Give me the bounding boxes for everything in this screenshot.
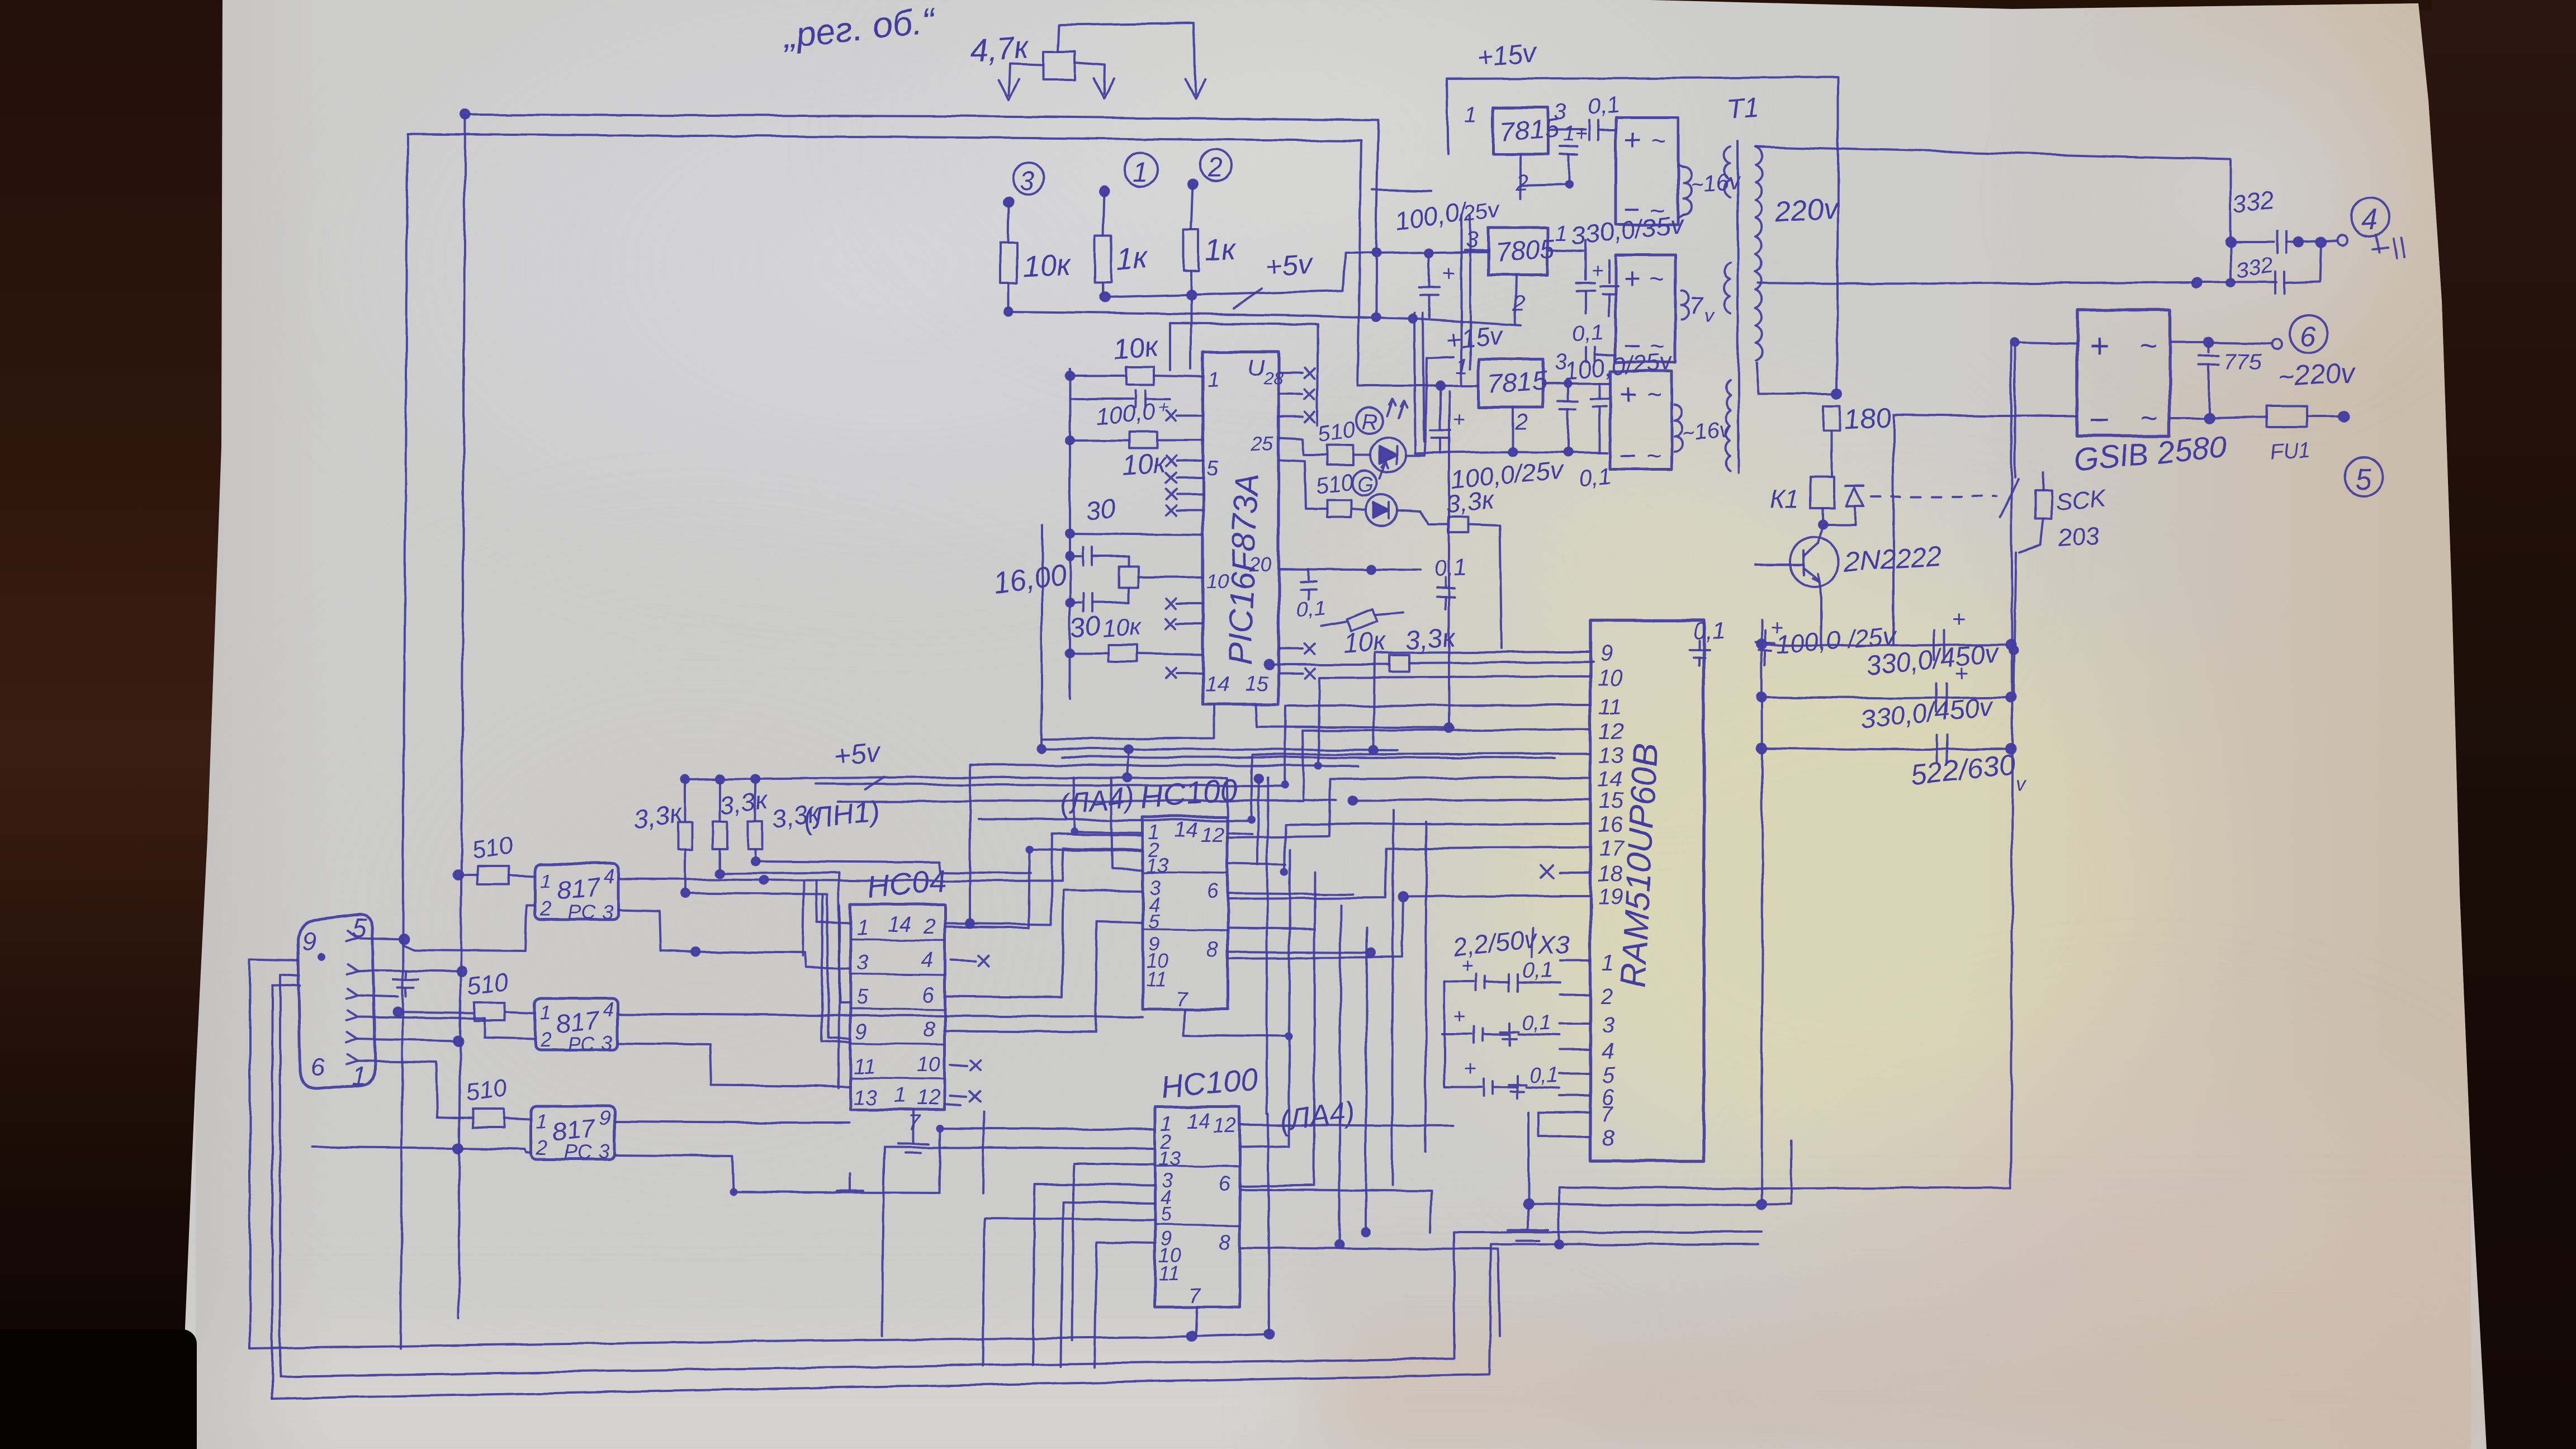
svg-text:12: 12: [1599, 719, 1624, 744]
svg-text:7: 7: [1176, 988, 1189, 1011]
wire HC100b outputs: [1240, 1125, 1499, 1336]
svg-text:522/630: 522/630: [1909, 749, 2017, 792]
resistor 180: [1824, 406, 1840, 477]
RAM pin stubs: [1560, 652, 1590, 1137]
svg-text:3: 3: [1602, 1013, 1614, 1038]
wire extra bus below PIC c: [839, 801, 1304, 802]
svg-text:10к: 10к: [1342, 627, 1388, 659]
svg-text:1: 1: [1207, 368, 1219, 392]
junction dots mesh: [730, 762, 1322, 1196]
svg-text:−: −: [2089, 401, 2109, 439]
optocoupler 817 ch1: [535, 864, 619, 924]
wire HC100 second pin7 down: [1195, 1307, 1196, 1337]
wire long link leds to ram: [1426, 357, 1453, 732]
svg-text:НС04: НС04: [865, 863, 948, 905]
wire HC100b left drops: [882, 1193, 1096, 1367]
svg-text:12: 12: [1201, 823, 1224, 847]
svg-text:+15v: +15v: [1476, 37, 1540, 73]
svg-text:13: 13: [1146, 854, 1168, 877]
capacitor 0,1 by transistor: [1689, 617, 1725, 665]
svg-text:3: 3: [1020, 167, 1035, 196]
wire PIC pin20 right: [1278, 566, 1420, 574]
wire osc row upper: [1066, 530, 1203, 538]
svg-text:8: 8: [1602, 1126, 1615, 1150]
HC100 first dividers: [1143, 872, 1228, 930]
svg-text:14: 14: [1186, 1110, 1210, 1133]
svg-text:1+: 1+: [1563, 122, 1587, 146]
wire PIC bottom bus 1: [1038, 745, 1398, 753]
HC04 x marks: [950, 956, 988, 1101]
potentiometer wiper jumper wire: [1058, 23, 1205, 100]
svg-text:6: 6: [1219, 1172, 1231, 1196]
svg-text:+: +: [1453, 1005, 1466, 1028]
IC RAM510UP60B body: [1590, 621, 1704, 1161]
capacitor osc upper: [1066, 547, 1129, 565]
HC04 row dividers: [850, 939, 945, 1079]
cap group 2 film 0,1: [1500, 1011, 1560, 1045]
wire right loop vertical: [2011, 342, 2012, 1187]
svg-text:25v: 25v: [1461, 197, 1502, 226]
svg-text:17: 17: [1599, 837, 1625, 861]
capacitor 332 lower: [2273, 238, 2326, 294]
wire extra bus below PIC b: [816, 784, 1285, 786]
wire HC04 inputs from left: [685, 861, 1031, 1087]
svg-text:2: 2: [539, 897, 551, 920]
svg-text:8: 8: [924, 1018, 935, 1041]
svg-text:РС: РС: [568, 901, 596, 924]
svg-text:15: 15: [1599, 789, 1624, 813]
wire relay bottom link: [1819, 508, 1855, 528]
svg-text:SCK: SCK: [2054, 485, 2108, 515]
svg-text:2: 2: [923, 915, 935, 939]
svg-text:7: 7: [1689, 292, 1704, 320]
svg-text:10к: 10к: [1112, 330, 1161, 365]
capacitor 330/450 first: [1934, 606, 1966, 660]
svg-text:11: 11: [853, 1055, 875, 1078]
svg-text:v: v: [2016, 772, 2027, 795]
ground small by opto3: [837, 1174, 863, 1191]
wire opto1 pin2: [404, 906, 535, 951]
svg-text:9: 9: [599, 1106, 610, 1129]
capacitors by bridge2: [1576, 240, 1618, 316]
wire PIC bottom bus 2: [970, 765, 1358, 766]
wire 7815c output caps: [1543, 380, 1611, 453]
wire RAM pin7 jog: [1538, 1112, 1560, 1137]
thyristor SCK203: [2019, 472, 2052, 552]
svg-text:20: 20: [1248, 553, 1271, 576]
relay K1: [1770, 477, 1834, 513]
svg-text:(ЛА4): (ЛА4): [1058, 780, 1136, 822]
svg-text:4,7к: 4,7к: [969, 29, 1031, 68]
wire bottom bus 2: [280, 1232, 1761, 1376]
svg-text:~: ~: [2139, 329, 2157, 362]
resistor 10k second of PIC: [1066, 432, 1203, 448]
wire +5v bus upper: [1100, 249, 1488, 302]
svg-text:0,1: 0,1: [1587, 92, 1620, 120]
svg-text:РС: РС: [567, 1033, 595, 1055]
filter bus 3: [1757, 744, 2015, 753]
label R circled with arrows: [1356, 399, 1407, 434]
svg-text:3: 3: [1466, 228, 1478, 252]
capacitor 0,1 mid: [1433, 553, 1467, 609]
svg-text:203: 203: [2056, 522, 2100, 552]
wire HC100a outputs: [1184, 833, 1375, 1036]
svg-text:4: 4: [921, 949, 933, 972]
wire GSIB minus long left: [1893, 415, 2077, 645]
wire bottom bus 1: [250, 1329, 1273, 1348]
bridge rectifier GSIB2580: [2077, 310, 2170, 439]
label 2,2/50v X3: [1451, 924, 1570, 962]
resistor 1k of terminal 2: [1183, 184, 1199, 369]
bridge rectifier 2: [1616, 255, 1675, 362]
terminal circle 6: [2290, 315, 2328, 353]
wire +15v loop: [1447, 77, 1838, 168]
DB9 wires to frame verticals: [358, 935, 484, 1117]
resistor 3.3k by leds: [1420, 512, 1502, 648]
svg-text:9: 9: [855, 1020, 867, 1044]
svg-text:11: 11: [1146, 968, 1167, 991]
wire mid risers: [966, 749, 1129, 927]
crystal 16MHz: [1119, 556, 1203, 603]
svg-text:3,3к: 3,3к: [1445, 485, 1497, 519]
winding 16v third: [1674, 405, 1733, 452]
svg-text:2: 2: [536, 1137, 548, 1159]
wire RAM pin16 bus: [1285, 823, 1560, 872]
wire top outer rail: [461, 110, 1380, 318]
wire mesh vertical c: [1240, 872, 1315, 1186]
svg-text:~: ~: [1646, 441, 1661, 470]
resistor 10k bottom of PIC: [1066, 645, 1203, 662]
svg-text:5: 5: [856, 986, 869, 1009]
wire second top rail: [408, 134, 1431, 386]
svg-text:4: 4: [2361, 203, 2378, 236]
svg-text:1к: 1к: [1115, 241, 1149, 276]
resistor slanted by PIC: [1321, 609, 1403, 632]
svg-text:+: +: [1619, 379, 1636, 411]
svg-text:4: 4: [604, 865, 615, 888]
svg-text:1: 1: [537, 1110, 548, 1133]
potentiometer body: [1044, 51, 1075, 79]
svg-text:12: 12: [917, 1086, 940, 1110]
svg-text:5: 5: [1206, 457, 1219, 480]
wire primary bottom long: [1758, 278, 2276, 287]
wire 7805 output: [1548, 250, 1583, 251]
cap group 1 elec: [1445, 954, 1509, 991]
svg-text:4: 4: [603, 998, 614, 1021]
svg-text:~220v: ~220v: [2277, 356, 2357, 393]
wire HC04 to HC100 a: [945, 850, 1143, 928]
regulator 7805: [1488, 228, 1556, 275]
svg-text:К1: К1: [1770, 484, 1800, 513]
svg-text:7805: 7805: [1494, 234, 1556, 268]
wire mesh vertical b: [1240, 850, 1290, 1147]
terminal circle 3: [1004, 163, 1044, 206]
filter bus 1: [1757, 640, 2015, 649]
wire HC04 pin2 to HC100a pin1: [945, 834, 1143, 925]
svg-text:30: 30: [1085, 494, 1117, 526]
svg-text:510: 510: [470, 831, 515, 864]
diode by relay: [1846, 486, 1864, 524]
terminal circle 5: [2345, 457, 2383, 495]
svg-text:3: 3: [856, 951, 868, 974]
label +5v with pointer: [1233, 248, 1315, 309]
svg-text:3: 3: [1554, 351, 1566, 375]
svg-text:~16v: ~16v: [1680, 417, 1733, 447]
wire RAM pin12 bus: [1303, 730, 1560, 801]
mark minus cap at 4: [2373, 238, 2405, 258]
transformer primary winding 220v: [1755, 146, 1761, 361]
svg-text:+: +: [1954, 660, 1968, 686]
svg-text:332: 332: [2231, 186, 2276, 219]
resistor 510 green led: [1278, 460, 1351, 517]
capacitor 100,0/25v by transistor: [1755, 615, 1783, 665]
wire RAM pin10 bus: [1318, 676, 1560, 766]
wire DB9 left drops: [250, 959, 300, 1399]
capacitor 330/450 second: [1936, 660, 1968, 712]
wire mesh vertical d: [1336, 906, 1343, 1248]
wire RAM pin9 bus: [1370, 652, 1560, 754]
svg-text:8: 8: [1219, 1230, 1230, 1254]
wire verticals left of HC04: [803, 881, 850, 1088]
svg-text:v: v: [1704, 305, 1715, 326]
wire ground bus: [1528, 1140, 1791, 1209]
wire 332 junction drop: [2227, 242, 2234, 287]
svg-text:−: −: [1619, 439, 1636, 472]
wire left filter vertical: [1761, 621, 1763, 1204]
capacitor 0,1 first: [1589, 121, 1616, 140]
wire PIC pin15 long bus: [1256, 704, 1453, 728]
wire +5v bus lower: [1005, 307, 1521, 325]
svg-text:3: 3: [602, 1031, 613, 1054]
svg-text:3: 3: [603, 901, 614, 924]
cap group 2 elec: [1442, 1005, 1508, 1043]
resistor 3.3k lower: [1265, 655, 1593, 671]
LED red: [1353, 430, 1426, 472]
svg-text:2: 2: [1512, 291, 1525, 316]
svg-text:2: 2: [1207, 153, 1223, 183]
svg-text:R: R: [1362, 410, 1378, 434]
capacitor 0,1 mid psu: [1587, 348, 1616, 362]
resistor 3.3k c: [748, 779, 763, 865]
DB9 connector outline: [298, 915, 375, 1090]
transformer core and windings: [1725, 141, 1739, 472]
wire RAM pin13 bus: [1251, 754, 1560, 820]
wire primary top long: [1755, 146, 2235, 247]
capacitor 775: [2199, 342, 2261, 418]
svg-text:332: 332: [2234, 253, 2275, 283]
svg-text:0,1: 0,1: [1522, 1011, 1551, 1035]
svg-text:510: 510: [465, 1074, 509, 1107]
svg-text:Т1: Т1: [1726, 91, 1760, 125]
svg-text:13: 13: [1599, 743, 1624, 768]
svg-text:15: 15: [1244, 673, 1268, 696]
resistor 1k of terminal 1: [1095, 191, 1111, 297]
wire 7805 input: [1465, 249, 1488, 251]
svg-text:3,3к: 3,3к: [1404, 623, 1457, 656]
terminal circle 2: [1188, 150, 1232, 189]
svg-text:РС: РС: [563, 1141, 592, 1164]
svg-text:5: 5: [1161, 1202, 1172, 1225]
ground main: [1508, 1204, 1549, 1241]
svg-text:28: 28: [1263, 368, 1284, 389]
svg-text:14: 14: [888, 913, 911, 936]
HC100 second dividers: [1155, 1166, 1240, 1225]
svg-text:0,1: 0,1: [1578, 462, 1613, 491]
HC04 ground: [898, 1110, 929, 1153]
resistor 510 ch3: [437, 1109, 532, 1128]
svg-text:+: +: [2089, 327, 2109, 366]
wire relay coil left: [1756, 363, 1838, 394]
wire left PIC feeder vertical: [1069, 369, 1071, 699]
wire HC100b inputs: [883, 1128, 1155, 1291]
svg-text:10: 10: [917, 1053, 940, 1076]
x mark at RAM pin 18: [1541, 865, 1553, 878]
wire extra link HC100a area: [1228, 774, 1315, 929]
svg-text:+: +: [1464, 1057, 1476, 1081]
wire RAM pin17 bus: [1228, 847, 1560, 899]
svg-text:1: 1: [894, 1084, 906, 1107]
wire left inner vertical: [458, 115, 465, 1318]
wire caps ground riser: [1524, 1112, 1533, 1209]
capacitor elec below 7815c: [1430, 386, 1465, 453]
svg-text:2: 2: [539, 1028, 551, 1051]
wire bottom bus 3: [272, 1244, 1758, 1399]
svg-text:10к: 10к: [1121, 447, 1168, 481]
wire GSIB plus to switch column: [2010, 338, 2077, 697]
svg-text:1: 1: [856, 916, 868, 940]
wire 7805 gnd: [1515, 275, 1516, 324]
transistor 2N2222: [1755, 525, 1839, 598]
wire extra bus below PIC d: [978, 820, 1251, 821]
wire RAM pin14 bus: [1228, 778, 1560, 837]
label G circled with arrows: [1352, 462, 1388, 496]
svg-text:+5v: +5v: [1265, 248, 1315, 282]
wire PIC wrap: [1170, 323, 1318, 425]
svg-text:+: +: [1442, 261, 1455, 286]
wire mesh vertical f: [1392, 811, 1393, 1185]
capacitor 522/630: [1938, 735, 1948, 763]
svg-text:11: 11: [1158, 1262, 1179, 1285]
svg-text:1: 1: [1465, 102, 1477, 127]
svg-text:11: 11: [1599, 694, 1622, 719]
resistor 10k top of PIC: [1066, 367, 1203, 385]
svg-text:10: 10: [1598, 666, 1623, 690]
svg-text:14: 14: [1205, 673, 1229, 696]
wire opto2 outputs: [618, 1014, 1143, 1086]
wire GSIB ac bottom to fuse: [2170, 414, 2267, 423]
svg-text:+5v: +5v: [832, 736, 883, 772]
winding 7v: [1682, 291, 1715, 326]
pin U28 label: [1248, 354, 1284, 389]
resistor 510 ch2: [393, 1002, 535, 1021]
wire 7815c gnd: [1512, 408, 1514, 452]
resistor 510 red led: [1278, 438, 1353, 465]
wire 15v rail riser: [1833, 168, 1842, 398]
svg-text:100,0⁺: 100,0⁺: [1095, 397, 1170, 430]
svg-text:2N2222: 2N2222: [1843, 541, 1943, 577]
wire caps common left: [1442, 982, 1452, 1087]
resistor 510 ch1: [454, 866, 535, 884]
capacitor elec by 7815: [1521, 122, 1587, 198]
svg-text:+15v: +15v: [1445, 320, 1505, 354]
svg-text:2: 2: [1516, 171, 1528, 195]
terminal circle 1: [1100, 153, 1158, 196]
svg-text:16,00: 16,00: [992, 558, 1068, 600]
wire psu risers: [1372, 190, 1470, 453]
svg-text:330,0/35v: 330,0/35v: [1570, 210, 1687, 250]
wire left outer vertical: [401, 134, 408, 1348]
svg-text:1: 1: [1133, 156, 1148, 187]
potentiometer right arm wire: [1075, 63, 1114, 98]
svg-text:10: 10: [1206, 570, 1229, 593]
svg-text:6: 6: [1206, 879, 1219, 903]
svg-text:14: 14: [1598, 767, 1623, 792]
svg-text:+: +: [1460, 954, 1472, 978]
svg-text:7: 7: [1601, 1102, 1614, 1126]
wire 16MHz left vertical: [1041, 525, 1043, 749]
resistor 3.3k a: [678, 779, 692, 897]
svg-text:100,0/: 100,0/: [1393, 197, 1470, 236]
wire opto3 outputs: [614, 1121, 939, 1193]
svg-text:9: 9: [1600, 641, 1612, 666]
label 522/630: [1909, 749, 2027, 795]
svg-text:6: 6: [922, 983, 935, 1007]
RAM pin labels 1-8: [1600, 950, 1615, 1150]
PIC right pin stubs with x marks: [1278, 368, 1315, 678]
capacitor 100,0 25v elec: [1419, 255, 1455, 318]
bridge rectifier 1: [1616, 117, 1678, 226]
svg-text:FU1: FU1: [2270, 438, 2312, 465]
svg-text:30: 30: [1069, 611, 1102, 643]
RAM pin labels 9-19: [1598, 641, 1625, 910]
svg-text:220v: 220v: [1773, 192, 1841, 229]
wire mesh vertical g: [1426, 822, 1427, 1152]
svg-text:НС100: НС100: [1159, 1061, 1259, 1105]
wire HC100a inputs top: [1073, 777, 1143, 870]
wire +5v bus lower area: [681, 774, 1228, 817]
svg-text:25: 25: [1251, 432, 1274, 455]
svg-text:8: 8: [1206, 937, 1218, 961]
svg-text:„рег. об.“: „рег. об.“: [780, 0, 939, 56]
svg-text:1: 1: [1555, 221, 1568, 245]
svg-text:3: 3: [1554, 100, 1566, 125]
capacitor 332 upper: [2231, 231, 2347, 253]
svg-text:13: 13: [853, 1086, 877, 1110]
svg-text:3,3к: 3,3к: [718, 785, 770, 821]
wire HC04 to HC100 b: [945, 890, 1143, 997]
svg-text:+: +: [1623, 124, 1640, 157]
svg-text:510: 510: [466, 968, 510, 1001]
IC HC100 second body: [1155, 1107, 1240, 1307]
wire 7815c input: [1431, 382, 1479, 390]
svg-text:2: 2: [1514, 410, 1527, 434]
svg-text:~: ~: [1650, 126, 1665, 155]
wire opto3 pin2: [313, 1144, 532, 1153]
wire below HC04 to bottom: [945, 1104, 984, 1194]
resistor 10k of terminal 3: [1000, 202, 1017, 311]
svg-text:0,1: 0,1: [1523, 959, 1552, 982]
wire opto1 outputs: [619, 849, 1143, 955]
wire psu lower bus: [1415, 448, 1608, 456]
svg-text:0,1: 0,1: [1296, 596, 1327, 622]
LED green: [1351, 495, 1420, 526]
DB9 pin labels: [302, 913, 367, 1090]
PIC left pin stubs with x marks: [1166, 410, 1203, 678]
svg-text:5: 5: [1148, 910, 1160, 932]
HC04 pin labels: [853, 913, 940, 1110]
svg-text:0,1: 0,1: [1529, 1064, 1559, 1087]
svg-text:5: 5: [2355, 463, 2371, 495]
